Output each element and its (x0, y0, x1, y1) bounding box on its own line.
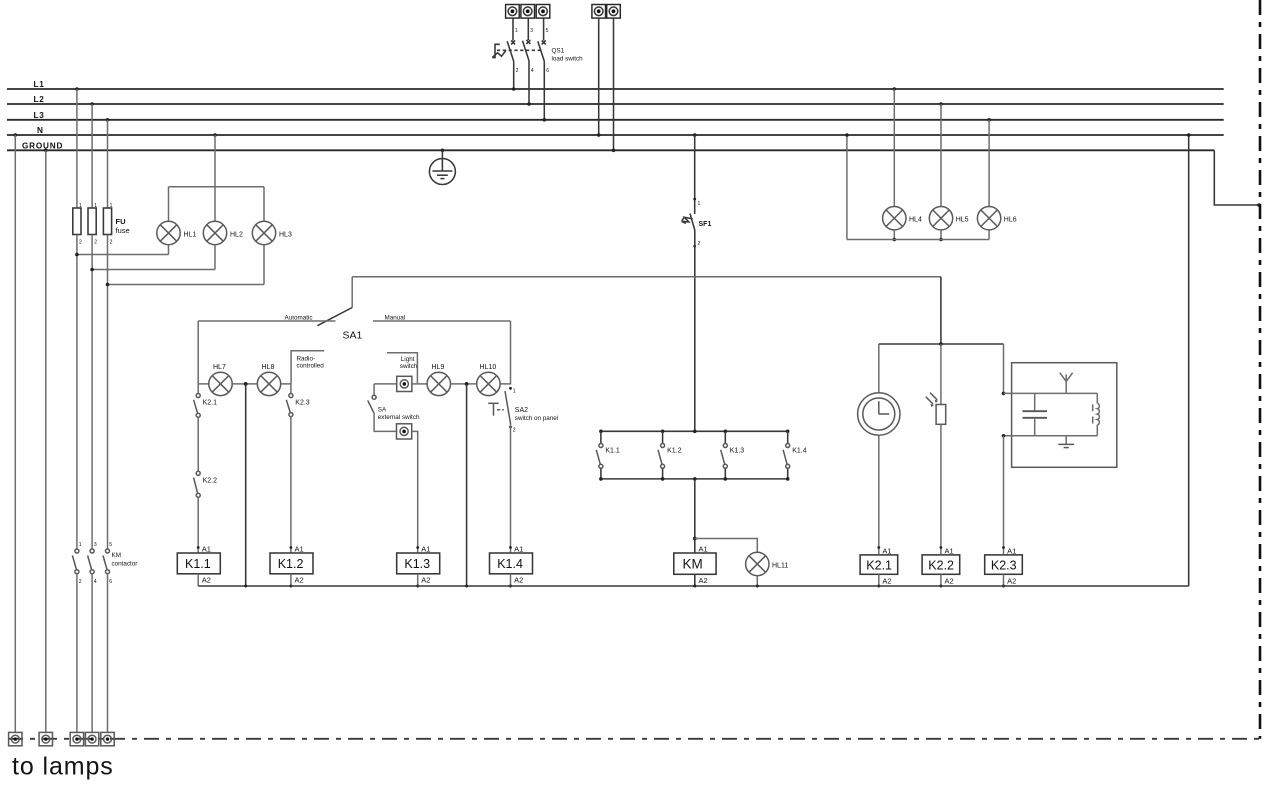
wire K2.2 to coil K1.1 (197, 497, 199, 553)
wire L3 to HL6 (987, 118, 991, 207)
svg-text:1: 1 (515, 28, 518, 34)
node radio input junction (1002, 392, 1006, 396)
svg-text:HL11: HL11 (772, 563, 788, 570)
wire HL5 to bottom bus (939, 230, 943, 241)
pin A1 K2.1 (877, 546, 891, 555)
wire A2 neutral bus (198, 585, 1188, 588)
SA2 manual actuator (488, 403, 504, 415)
pin 2 FU1 (79, 240, 82, 246)
wire radio tank bottom rail (1004, 435, 1098, 437)
wire junction to HL11 (695, 539, 758, 553)
label K1.4 contact (792, 448, 807, 455)
pin A1 K1.3 (416, 545, 430, 554)
svg-text:A2: A2 (882, 577, 891, 586)
label K1.3 contact (730, 448, 745, 455)
pin 2 SA2 (509, 426, 516, 434)
node KM/HL11 junction (693, 537, 697, 541)
switch QS1 pole 1 fixed contact X (511, 40, 515, 44)
terminal X2 (L2 in) (521, 5, 535, 19)
wire Manual throw (373, 320, 511, 322)
wire control feed horizontal (352, 276, 941, 278)
wire K2.3 to coil K1.2 (290, 417, 292, 553)
wire K2.3 to A2 bus (1002, 574, 1005, 587)
svg-text:L1: L1 (34, 80, 45, 89)
pin A2 K1.1 (202, 576, 211, 585)
pin 4 QS1 (531, 68, 534, 74)
switch QS1 pole 1 blade (507, 41, 514, 61)
wire K1.2 to A2 bus (289, 574, 292, 588)
label K2.1 (203, 400, 218, 407)
svg-text:6: 6 (546, 68, 549, 74)
light switch 1 (397, 376, 412, 391)
wire X2 to QS1 pole2 (527, 18, 529, 40)
pin 1 SF1 (693, 198, 700, 207)
terminal out 3 (L1) (70, 732, 83, 745)
contact K1.1 NO (596, 431, 603, 479)
wire QS1 pole2 to L2 (527, 61, 531, 106)
svg-text:K1.2: K1.2 (667, 448, 682, 455)
svg-text:K2.1: K2.1 (866, 559, 892, 573)
wire Manual drop to HL10 (500, 321, 511, 384)
node N label (37, 126, 44, 135)
wire L2 to fuse FU2 (90, 102, 94, 208)
svg-text:A1: A1 (514, 545, 523, 554)
switch SA external (368, 384, 397, 432)
pin A2 K1.4 (514, 576, 523, 585)
svg-text:4: 4 (94, 579, 97, 585)
svg-text:N: N (37, 126, 44, 135)
fuse FU2 (88, 208, 96, 235)
svg-text:HL5: HL5 (956, 217, 969, 224)
wire HL4 to bottom bus (893, 230, 897, 241)
pin A2 K2.3 (1007, 577, 1016, 586)
svg-text:2: 2 (698, 241, 701, 247)
wire K2.1 to K2.2 (197, 417, 199, 471)
wire photo sensor to coil K2.2 (940, 424, 942, 554)
label switch on panel (515, 415, 558, 422)
svg-text:A2: A2 (202, 576, 211, 585)
wire GROUND drop to output terminal 2 (44, 149, 48, 733)
wire K1.1 to A2 bus (197, 574, 199, 586)
coil K1.4 (490, 553, 533, 574)
label HL6 (1004, 217, 1017, 224)
pin A1 K1.2 (290, 545, 304, 554)
svg-text:K2.1: K2.1 (203, 400, 218, 407)
timer clock KT (858, 393, 900, 435)
lamp HL6 (977, 207, 1000, 230)
label HL2 (230, 232, 243, 239)
svg-text:HL8: HL8 (262, 364, 275, 371)
pin 2 SF1 (693, 241, 700, 248)
pin A2 KM (699, 576, 708, 585)
contactor KM pole 3 (103, 542, 112, 585)
terminal X5 (PE in) (607, 5, 621, 19)
label HL8 (262, 364, 275, 371)
terminal X1 (L1 in) (506, 5, 520, 19)
coil K2.3 (985, 555, 1023, 574)
breaker SF1 (682, 214, 695, 231)
lamp HL3 (252, 221, 275, 244)
wire KM to A2 bus (694, 574, 696, 586)
wire HL1-HL3 top bus (169, 186, 265, 188)
svg-text:SA: SA (378, 407, 387, 414)
wire K2.1 to A2 bus (877, 574, 880, 587)
svg-text:GROUND: GROUND (22, 141, 63, 150)
wire HL6 to bottom bus (988, 230, 990, 240)
wire N to HL1-HL3 top bus (213, 133, 217, 187)
contact K2.3 NO (286, 394, 293, 417)
terminal X4 (N in) (592, 5, 606, 19)
panel boundary dashed bottom (8, 738, 1260, 740)
svg-text:A2: A2 (514, 576, 523, 585)
node L3 label (34, 111, 45, 120)
svg-text:HL6: HL6 (1004, 217, 1017, 224)
svg-text:2: 2 (94, 240, 97, 246)
capacitor tank C (1023, 393, 1048, 435)
switch QS1 pole 3 fixed contact X (542, 40, 546, 44)
lamp HL4 (883, 207, 906, 230)
wire N to SF1 (693, 133, 697, 214)
wire bottom bus to coil KM (694, 479, 696, 553)
wire top bus to HL3 (263, 187, 265, 222)
light switch 2 (397, 424, 412, 439)
terminal out 2 (PE) (39, 732, 52, 745)
svg-text:2: 2 (516, 68, 519, 74)
svg-text:Manual: Manual (385, 315, 406, 322)
contact K1.2 NO (658, 431, 665, 479)
svg-text:A1: A1 (421, 545, 430, 554)
wire HL4-HL6 bottom bus (847, 239, 989, 241)
svg-text:A1: A1 (202, 545, 211, 554)
label QS1 (552, 48, 565, 55)
wire L1 to fuse FU1 (75, 87, 79, 208)
coil KM (674, 553, 716, 574)
svg-text:5: 5 (546, 28, 549, 34)
svg-text:K2.2: K2.2 (928, 559, 954, 573)
contactor KM pole 2 (88, 542, 97, 585)
svg-text:to lamps: to lamps (12, 753, 114, 781)
wire K1.3 to A2 bus (416, 574, 419, 588)
label SA2 (515, 407, 528, 414)
wire SA2 to coil K1.4 (510, 425, 512, 553)
svg-text:K1.3: K1.3 (404, 557, 430, 571)
wire bus N (7, 134, 1224, 136)
label K2.3 (295, 400, 310, 407)
svg-text:5: 5 (109, 542, 112, 548)
label HL10 (480, 364, 497, 371)
svg-text:K1.4: K1.4 (792, 448, 807, 455)
svg-text:1: 1 (513, 389, 516, 395)
label HL1 (184, 232, 197, 239)
svg-text:2: 2 (79, 579, 82, 585)
svg-text:KM: KM (683, 557, 703, 572)
switch SA2 (505, 391, 511, 425)
svg-text:FU: FU (116, 217, 126, 226)
node L1 label (34, 80, 45, 89)
wire light switch 1 to HL9 (412, 383, 427, 385)
panel boundary dashed right (1259, 0, 1262, 739)
wire FU2 to KM contact 2 (91, 235, 93, 549)
QS1 linkage dashed bar (497, 49, 541, 51)
svg-text:HL1: HL1 (184, 232, 197, 239)
pin A1 K1.4 (509, 545, 523, 554)
wire K2 branch top bus (879, 342, 1004, 346)
wire top bus to HL2 (214, 187, 216, 222)
wire QS1 pole1 to L1 (512, 61, 516, 91)
svg-text:A1: A1 (295, 545, 304, 554)
terminal X3 (L3 in) (536, 5, 550, 19)
wire bus to time clock (878, 344, 880, 393)
label KM contactor (112, 552, 138, 568)
terminal out 1 (N) (9, 732, 22, 745)
antenna (1060, 373, 1073, 394)
contact K2.2 NO (194, 471, 201, 497)
svg-text:Radio-: Radio- (297, 356, 316, 363)
svg-text:switch: switch (400, 363, 418, 370)
wire X3 to QS1 pole3 (543, 18, 545, 40)
pin 6 QS1 (546, 68, 549, 74)
svg-text:HL3: HL3 (279, 232, 292, 239)
wire Automatic throw (198, 320, 335, 322)
pin A1 KM (699, 545, 708, 554)
svg-text:L2: L2 (34, 95, 45, 104)
annotation Radio-controlled (291, 351, 324, 384)
pin 1 SA2 (509, 387, 516, 395)
lamp HL9 (427, 372, 450, 395)
wire Automatic drop to HL7 row (198, 321, 209, 384)
node radio output junction (1002, 434, 1006, 438)
earth electrode symbol PE (429, 149, 455, 185)
wire HL7 to HL8 (232, 383, 257, 385)
label HL5 (956, 217, 969, 224)
label HL7 (213, 364, 226, 371)
terminal out 5 (L3) (101, 732, 114, 745)
wire HL11 to A2 bus (756, 576, 758, 586)
wire L3 to fuse FU3 (106, 118, 110, 208)
wire K1.4 to A2 bus (509, 574, 512, 588)
pin 1 FU2 (94, 203, 97, 209)
pin A2 K1.3 (421, 576, 430, 585)
svg-text:fuse: fuse (116, 226, 130, 235)
wire control feed to K2 branch bus (940, 277, 942, 344)
label Automatic (285, 315, 313, 322)
label to lamps (12, 753, 114, 781)
node HL9/HL10 neutral junction (465, 382, 469, 386)
svg-text:K2.3: K2.3 (991, 559, 1017, 573)
svg-text:load switch: load switch (552, 56, 584, 63)
coil K1.1 (177, 553, 220, 574)
svg-text:A2: A2 (945, 577, 954, 586)
pin 5 QS1 (546, 28, 549, 34)
svg-text:3: 3 (530, 28, 533, 34)
svg-text:A2: A2 (295, 576, 304, 585)
wire top bus to HL1 (168, 187, 170, 222)
svg-text:HL9: HL9 (432, 364, 445, 371)
wire X4 to N (597, 18, 601, 137)
wire K1 contact bank top bus (599, 430, 789, 434)
svg-text:A2: A2 (1007, 577, 1016, 586)
wire ground extension to panel edge (1214, 150, 1260, 207)
switch QS1 pole 2 blade (523, 41, 530, 61)
label HL9 (432, 364, 445, 371)
fuse FU3 (103, 208, 111, 235)
wire bus L3 (7, 119, 1224, 121)
coil K2.2 (922, 555, 960, 574)
wire X1 to QS1 pole1 (512, 18, 514, 40)
lamp HL7 (209, 372, 232, 395)
svg-text:3: 3 (94, 542, 97, 548)
wire radio receiver to coil K2.3 (1003, 436, 1005, 554)
label load switch (552, 56, 584, 63)
svg-text:K1.1: K1.1 (605, 448, 620, 455)
svg-text:controlled: controlled (297, 363, 325, 370)
switch SA1 selector (317, 277, 352, 326)
pin 1 QS1 (515, 28, 518, 34)
ground symbol in radio box (1058, 436, 1074, 448)
svg-text:K1.2: K1.2 (278, 557, 304, 571)
wire FU3 to KM contact 3 (107, 235, 109, 549)
svg-text:1: 1 (698, 201, 701, 207)
pin 1 FU1 (79, 203, 82, 209)
contact K1.4 NO (783, 431, 790, 479)
wire QS1 pole3 to L3 (543, 61, 547, 121)
svg-text:A2: A2 (699, 576, 708, 585)
svg-text:SF1: SF1 (699, 221, 712, 228)
wire A2 bus return to N (1187, 133, 1191, 586)
wire HL3 to FU3 feed (106, 245, 264, 287)
svg-text:HL2: HL2 (230, 232, 243, 239)
lamp HL1 (157, 221, 180, 244)
switch QS1 pole 2 fixed contact X (526, 40, 530, 44)
node GROUND label (22, 141, 63, 150)
svg-text:A1: A1 (699, 545, 708, 554)
pin 2 FU2 (94, 240, 97, 246)
photo resistor sensor (926, 393, 946, 425)
wire HL2 to FU2 feed (90, 245, 215, 272)
wire light-switch branch corner (374, 383, 397, 385)
wire SF1 to K1 contact bank (694, 231, 696, 432)
svg-text:HL4: HL4 (909, 217, 922, 224)
pin A1 K1.1 (197, 545, 211, 554)
wire HL8 to K2.3 contact (281, 384, 291, 394)
radio receiver enclosure box (1012, 363, 1117, 468)
node HL7/HL8 neutral junction (244, 382, 248, 386)
coil K2.1 (860, 555, 898, 574)
wire K1 contact bank bottom bus (599, 477, 789, 481)
wire L1 to HL4 (893, 87, 897, 206)
pin 2 FU3 (110, 240, 113, 246)
coil K1.2 (270, 553, 313, 574)
lamp HL5 (929, 207, 952, 230)
wire bus GROUND (7, 149, 1214, 151)
lamp HL10 (477, 372, 500, 395)
pin 3 QS1 (530, 28, 533, 34)
label FU fuse (116, 217, 130, 235)
wire N drop to output terminal 1 (14, 133, 18, 732)
label Manual (385, 315, 406, 322)
wire HL9 to HL10 (451, 383, 477, 385)
wire radio tank top rail (1004, 392, 1098, 394)
fuse FU1 (73, 208, 81, 235)
svg-text:2: 2 (513, 428, 516, 434)
wire K2.2 to A2 bus (939, 574, 942, 587)
svg-text:QS1: QS1 (552, 48, 565, 55)
wire clock to coil K2.1 (878, 435, 880, 554)
coil K1.3 (397, 553, 440, 574)
wire KM pole2 to terminal (91, 574, 93, 733)
svg-text:K1.3: K1.3 (730, 448, 745, 455)
pin A2 K2.1 (882, 577, 891, 586)
wire bottom bus to N (845, 133, 849, 239)
QS1 operating handle (492, 44, 506, 57)
contact K1.3 NO (721, 431, 728, 479)
wire bus to photo sensor (940, 344, 942, 405)
inductor tank L (1093, 393, 1100, 435)
svg-text:contactor: contactor (112, 561, 138, 568)
wire HL1 to FU1 feed (75, 245, 168, 257)
label SF1 (699, 221, 712, 228)
svg-text:HL7: HL7 (213, 364, 226, 371)
terminal out 4 (L2) (85, 732, 98, 745)
wire bus to radio receiver (1003, 344, 1005, 393)
label K2.2 (203, 478, 218, 485)
wire X5 to GROUND (612, 18, 616, 152)
pin A1 K2.2 (940, 546, 954, 555)
svg-text:6: 6 (109, 579, 112, 585)
wire junction to A2 bus (245, 384, 247, 586)
label K1.2 contact (667, 448, 682, 455)
svg-text:A2: A2 (421, 576, 430, 585)
label K1.1 contact (605, 448, 620, 455)
lamp HL8 (257, 372, 280, 395)
switch QS1 pole 3 blade (538, 41, 545, 61)
wire KM pole1 to terminal (76, 574, 78, 733)
label SA1 (343, 330, 363, 342)
svg-text:HL10: HL10 (480, 364, 497, 371)
annotation Light switch (387, 353, 418, 384)
label HL11 (772, 563, 788, 570)
pin A2 K1.2 (295, 576, 304, 585)
lamp HL11 (746, 552, 769, 575)
svg-text:Light: Light (401, 356, 415, 363)
svg-text:switch on panel: switch on panel (515, 415, 558, 422)
svg-text:K1.1: K1.1 (185, 557, 211, 571)
pin A1 K2.3 (1002, 546, 1016, 555)
wire light switch 2 to coil K1.3 (412, 431, 418, 553)
svg-text:2: 2 (110, 240, 113, 246)
wire junction to A2 bus (466, 384, 468, 586)
svg-text:2: 2 (79, 240, 82, 246)
svg-text:Automatic: Automatic (285, 315, 313, 322)
label SA external switch (378, 407, 420, 422)
label HL4 (909, 217, 922, 224)
label HL3 (279, 232, 292, 239)
svg-text:K2.3: K2.3 (295, 400, 310, 407)
svg-text:external switch: external switch (378, 414, 420, 421)
svg-text:4: 4 (531, 68, 534, 74)
svg-text:SA1: SA1 (343, 330, 363, 342)
svg-text:K1.4: K1.4 (497, 557, 523, 571)
pin A2 K2.2 (945, 577, 954, 586)
contact K2.1 NO (194, 384, 201, 417)
svg-text:1: 1 (79, 542, 82, 548)
svg-text:L3: L3 (34, 111, 45, 120)
wire L2 to HL5 (939, 102, 943, 206)
contactor KM pole 1 (72, 542, 81, 585)
lamp HL2 (203, 221, 226, 244)
node L2 label (34, 95, 45, 104)
svg-text:K2.2: K2.2 (203, 478, 218, 485)
